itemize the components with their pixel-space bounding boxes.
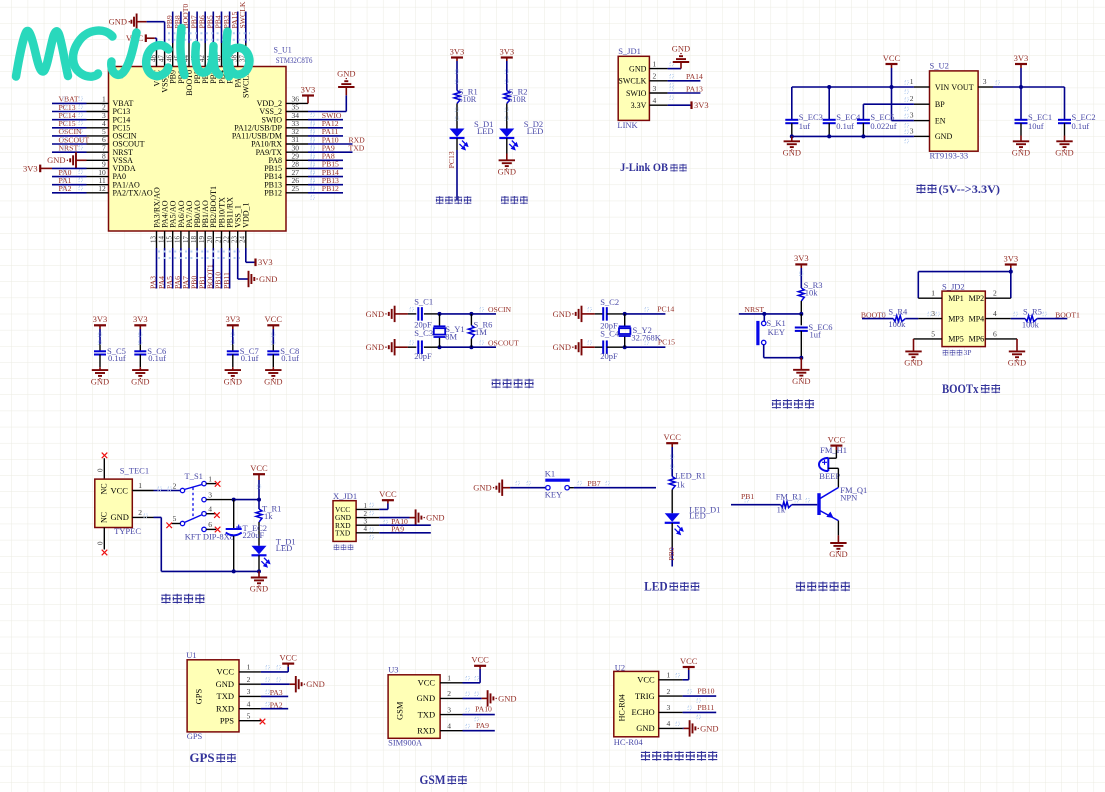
no-connect X at T_S1 pin4	[214, 512, 220, 518]
junction NRST/key	[762, 312, 766, 316]
capacitor S_C8	[267, 351, 279, 354]
power 3V3 bootx	[1005, 263, 1017, 265]
wire S_C7 to gnd	[232, 355, 234, 368]
ground at X_JD1 pin2	[416, 509, 422, 525]
svg-text:1: 1	[667, 671, 671, 680]
svg-text:GSM: GSM	[395, 701, 405, 720]
svg-text:1k: 1k	[264, 511, 273, 521]
svg-text:13: 13	[149, 236, 157, 244]
wire gnd rail	[792, 135, 914, 137]
wire U3 pin2 to gnd	[463, 697, 482, 699]
ground below S_EC1	[1013, 141, 1029, 147]
wire S_C3 to OSCOUT	[424, 346, 440, 348]
svg-text:GND: GND	[1008, 358, 1026, 368]
mcu U1 marker dots	[117, 72, 120, 75]
junction S_Y2 bottom	[623, 345, 627, 349]
mcu pin 27 PB14	[286, 176, 308, 178]
wire S_EC2 bottom	[1064, 123, 1066, 135]
wire EC3 to ground	[791, 136, 793, 141]
capacitor S_EC5	[857, 120, 870, 123]
power VCC above regulator	[886, 63, 898, 65]
svg-text:3P: 3P	[964, 348, 972, 357]
svg-text:GND: GND	[700, 723, 718, 733]
svg-text:T_S1: T_S1	[185, 471, 203, 481]
wire U3 pin3 PA10	[463, 714, 495, 716]
power VCC at U2	[683, 666, 695, 668]
wire PB1 to FM_R1	[731, 504, 781, 506]
wire 3V3 to S_C5	[99, 325, 101, 329]
svg-text:2: 2	[993, 289, 997, 298]
caption 蜂鸣器电路	[796, 582, 805, 592]
svg-text:GND: GND	[250, 584, 268, 594]
svg-text:1k: 1k	[676, 480, 685, 490]
mcu pin 41 PB5 (top)	[212, 43, 214, 67]
svg-text:0.1uf: 0.1uf	[836, 121, 854, 131]
power 3V3 at VOUT	[1015, 63, 1027, 65]
svg-text:VDD_1: VDD_1	[242, 202, 251, 227]
svg-text:3: 3	[983, 77, 987, 86]
wire S_C2 to PC14	[607, 313, 625, 315]
svg-text:GND: GND	[672, 43, 690, 53]
mcu pin 48 VCC (top)	[156, 43, 158, 67]
ground top-left of mcu	[131, 14, 136, 30]
wire 3V3 to S_C6	[139, 325, 141, 329]
power 3V3 at mcu pin24	[254, 259, 256, 267]
junction EC6 gnd	[799, 356, 803, 360]
capacitor T_EC2	[226, 529, 242, 535]
svg-text:18: 18	[190, 236, 198, 244]
resistor LED_R1	[669, 477, 675, 490]
svg-text:S_C1: S_C1	[414, 296, 433, 306]
S_JD2 pin2 stub	[985, 297, 1011, 299]
svg-text:6: 6	[993, 329, 997, 338]
wire U2 pin3 PB11	[683, 711, 717, 713]
wire EC4 top	[828, 87, 830, 119]
svg-text:3V3: 3V3	[258, 257, 273, 267]
svg-text:PA10: PA10	[475, 705, 492, 714]
wire U1 pin2 to gnd	[261, 683, 290, 685]
svg-text:3V3: 3V3	[225, 314, 240, 324]
connector X_JD1 body	[333, 501, 356, 542]
svg-text:GND: GND	[366, 309, 384, 319]
svg-text:PA14: PA14	[686, 72, 703, 81]
resistor S_R1	[454, 91, 460, 104]
capacitor S_C4	[603, 340, 607, 354]
svg-text:1: 1	[910, 77, 914, 86]
svg-text:VCC: VCC	[680, 656, 698, 666]
power 3V3 at mcu pin36	[302, 94, 314, 96]
svg-text:3V3: 3V3	[694, 100, 709, 110]
capacitor S_C1	[418, 307, 422, 321]
svg-text:GND: GND	[1055, 148, 1073, 158]
wire S_C1 to OSCIN	[424, 313, 440, 315]
wire VOUT rail	[993, 86, 1065, 88]
capacitor S_C3	[418, 340, 422, 354]
module U2 body	[614, 671, 659, 736]
svg-text:HC-R04: HC-R04	[618, 694, 627, 721]
svg-text:KEY: KEY	[545, 490, 562, 500]
wire S_EC4 bottom	[828, 123, 830, 136]
T_S1 pin4 stub	[206, 513, 216, 515]
svg-text:GND: GND	[259, 274, 277, 284]
svg-text:KEY: KEY	[768, 327, 785, 337]
svg-text:GND: GND	[629, 64, 647, 73]
mcu pin 16 PA6/AO (bottom)	[180, 231, 182, 248]
svg-text:3V3: 3V3	[1014, 53, 1029, 63]
svg-text:(5V-->3.3V): (5V-->3.3V)	[939, 184, 1001, 196]
mcu pin 26 PB13	[286, 184, 308, 186]
capacitor S_C6	[134, 351, 146, 354]
S_JD2 pin5 stub	[914, 338, 943, 340]
wire 3V3 bootx stem	[1010, 265, 1012, 269]
svg-text:6: 6	[208, 520, 212, 529]
wire VCC to S_C8	[272, 325, 274, 329]
svg-text:220uF: 220uF	[243, 530, 265, 540]
svg-text:S_C2: S_C2	[600, 297, 619, 307]
mcu pin 11 PA1/AO	[87, 184, 109, 186]
svg-text:PB12: PB12	[264, 188, 282, 197]
svg-text:0.1uf: 0.1uf	[1072, 121, 1090, 131]
power VCC at U3	[474, 665, 486, 667]
svg-text:4: 4	[447, 722, 451, 731]
svg-text:2: 2	[138, 508, 142, 517]
svg-text:3V3: 3V3	[1003, 253, 1018, 263]
svg-text:1M: 1M	[475, 327, 487, 337]
svg-text:17: 17	[182, 236, 190, 244]
svg-text:GPS: GPS	[194, 689, 204, 705]
mcu pin 13 PA3/RX/AO (bottom)	[156, 231, 158, 248]
ground at mcu pin8	[70, 152, 76, 168]
svg-text:GND: GND	[224, 376, 242, 386]
svg-text:1: 1	[138, 481, 142, 490]
svg-text:1: 1	[208, 475, 212, 484]
svg-text:LINK: LINK	[617, 120, 638, 130]
no-connect X top S_TEC1	[102, 453, 108, 459]
mcu pin 43 PB7 (top)	[196, 43, 198, 67]
svg-text:S_U2: S_U2	[930, 60, 949, 70]
svg-text:PA2/TX/AO: PA2/TX/AO	[113, 188, 153, 197]
key S_K1	[756, 321, 759, 345]
svg-text:2: 2	[247, 675, 251, 684]
connector S_TEC1 body	[95, 479, 133, 527]
mcu pin 30 PA9/TX	[286, 151, 308, 153]
ground below S_C5	[92, 370, 108, 376]
led S_D2	[499, 129, 514, 138]
svg-text:HC-R04: HC-R04	[614, 737, 644, 747]
mcu pin36 3V3 stem	[307, 96, 309, 104]
svg-text:10k: 10k	[805, 287, 819, 297]
wire 3V3 to S_C7	[232, 325, 234, 329]
junction S_R6 bottom	[469, 345, 473, 349]
mcu pin23 gnd wire	[237, 248, 239, 279]
S_TEC1 pin2 stub	[132, 516, 153, 518]
wire S_R2 to S_D2	[506, 104, 508, 129]
wire S_C8 to gnd	[272, 355, 274, 368]
switch T_S1 link dashed	[192, 488, 194, 520]
svg-text:FM_H1: FM_H1	[820, 445, 847, 455]
svg-text:14: 14	[157, 236, 165, 244]
mcu pin 35 VSS_2	[286, 111, 308, 113]
svg-text:LED: LED	[644, 580, 668, 594]
wire emitter to gnd	[837, 521, 839, 536]
svg-text:GND: GND	[337, 68, 355, 78]
mcu pin 6 OSCOUT	[87, 143, 109, 145]
S_JD2 pin6 stub	[985, 338, 1017, 340]
connector S_JD2 body	[942, 291, 985, 347]
junction VOUT 3V3	[1019, 85, 1023, 89]
svg-text:S_R5: S_R5	[1023, 306, 1042, 316]
svg-text:3.3V: 3.3V	[631, 101, 647, 110]
mcu pin 18 PB0/AO (bottom)	[196, 231, 198, 248]
wire X_JD1 pin1 to VCC	[379, 508, 388, 510]
wire S_C4 to PC15	[607, 346, 625, 348]
wire S_EC5 bottom	[862, 123, 864, 136]
S_JD2 pin4 stub	[985, 318, 1011, 320]
svg-text:NRST: NRST	[59, 144, 79, 153]
mcu pin 5 OSCIN	[87, 135, 109, 137]
wire U3 pin4 PA9	[463, 730, 495, 732]
svg-text:2: 2	[667, 687, 671, 696]
wire S_R3 to NRST node	[800, 301, 802, 314]
svg-text:X_JD1: X_JD1	[333, 491, 357, 501]
mcu pin35 gnd wire	[308, 111, 346, 113]
wire BOOT0 to S_R4	[862, 318, 893, 320]
resistor S_R6	[468, 326, 474, 339]
no-connect X at T_S1 pin1	[215, 481, 221, 487]
mcu pin9 VDDA power wire	[40, 167, 52, 169]
svg-text:PB11: PB11	[697, 703, 714, 712]
svg-text:PA9: PA9	[476, 721, 489, 730]
svg-text:510R: 510R	[459, 95, 477, 104]
svg-text:3: 3	[910, 126, 914, 135]
wire 3V3 to S_R2	[506, 58, 508, 62]
svg-text:3: 3	[667, 703, 671, 712]
switch T_S1 pole 3	[202, 497, 206, 501]
wire R3 to EC6	[800, 314, 802, 325]
module U1 body	[187, 660, 239, 732]
S_TEC1 pin1 stub	[132, 490, 153, 492]
wire S_EC1 bottom	[1020, 123, 1022, 135]
dotted marks top band	[168, 32, 250, 34]
svg-text:VCC: VCC	[265, 314, 283, 324]
mcu pin 23 VSS_1 (bottom)	[237, 231, 239, 248]
svg-text:MP6: MP6	[969, 335, 985, 344]
ground above J-Link	[673, 56, 689, 62]
caption 复位电路	[772, 399, 781, 408]
svg-text:VCC: VCC	[279, 652, 297, 662]
svg-text:0: 0	[97, 541, 105, 545]
svg-text:TXD: TXD	[335, 528, 351, 537]
svg-text:2: 2	[447, 689, 451, 698]
svg-text:20: 20	[206, 236, 214, 244]
svg-text:TXD: TXD	[217, 691, 234, 701]
junction NRST/R3	[799, 312, 803, 316]
mcu pin 4 PC15	[87, 127, 109, 129]
svg-text:3V3: 3V3	[301, 84, 316, 94]
svg-text:GPS: GPS	[190, 751, 215, 765]
junction S_Y1 top	[438, 312, 442, 316]
mcu pin 17 PA7/AO (bottom)	[188, 231, 190, 248]
svg-text:GND: GND	[498, 693, 516, 703]
svg-text:0.1uf: 0.1uf	[281, 353, 299, 363]
mcu pin 2 PC13	[87, 111, 109, 113]
capacitor S_EC1	[1015, 120, 1028, 123]
svg-text:S_TEC1: S_TEC1	[120, 465, 149, 475]
svg-text:TYPEC: TYPEC	[114, 526, 141, 536]
resistor T_R1	[256, 509, 262, 522]
svg-text:GND: GND	[47, 155, 65, 165]
wire cap T_EC2 bottom lead	[233, 536, 235, 571]
wire buzzer to collector	[828, 467, 838, 469]
svg-text:GND: GND	[109, 17, 127, 27]
led S_D1	[450, 129, 465, 138]
mcu pin 36 VDD_2	[286, 102, 308, 104]
ground S_JD2 pin6	[1009, 351, 1025, 357]
svg-text:24: 24	[239, 236, 247, 244]
ground at U3 pin2	[488, 690, 494, 706]
wire U2 pin2 PB10	[683, 695, 717, 697]
mcu pin 47 VSS_3 (top)	[164, 43, 166, 67]
svg-text:VCC: VCC	[217, 667, 235, 677]
wire gnd to S_C1	[395, 313, 408, 315]
svg-text:BEEP: BEEP	[819, 471, 840, 481]
svg-text:EN: EN	[935, 116, 946, 125]
wire S_JD1 pin4 3V3	[668, 104, 691, 106]
svg-text:GND: GND	[473, 483, 491, 493]
svg-text:100k: 100k	[888, 319, 906, 329]
svg-text:RXD: RXD	[417, 726, 435, 736]
wire S_EC3 bottom	[791, 123, 793, 136]
svg-text:LED: LED	[527, 126, 544, 136]
crystal S_Y2	[619, 326, 631, 336]
ground below S_C8	[265, 370, 281, 376]
svg-text:5: 5	[247, 712, 251, 721]
caption 电源(5V->3.3V)	[916, 184, 925, 193]
wire LED_D1 to PB0	[671, 523, 673, 547]
svg-text:2: 2	[653, 72, 657, 81]
svg-text:16: 16	[174, 236, 182, 244]
svg-text:J-Link OB: J-Link OB	[620, 160, 668, 174]
power VCC above S_C8	[267, 324, 279, 326]
svg-text:20pF: 20pF	[600, 351, 618, 361]
power VCC typec	[253, 473, 265, 475]
power 3V3 for S_D1	[451, 56, 463, 58]
svg-text:VCC: VCC	[471, 655, 489, 665]
wire U1 pin3 PA3	[261, 695, 288, 697]
T_S1 pin6 stub	[206, 528, 216, 530]
ground at mcu pin35	[338, 81, 354, 87]
svg-text:32.768K: 32.768K	[631, 333, 661, 343]
mcu pin 14 PA4/AO (bottom)	[164, 231, 166, 248]
svg-text:100k: 100k	[1022, 320, 1040, 330]
wire S_EC2 top	[1064, 87, 1066, 119]
resistor S_R3	[798, 288, 804, 301]
svg-text:47: 47	[157, 55, 165, 63]
svg-text:GND: GND	[498, 167, 516, 177]
junction VCC/VIN	[890, 85, 894, 89]
wire U2 pin4 to gnd	[683, 727, 684, 729]
wire 3V3 to S_R1	[456, 58, 458, 62]
svg-text:PB10: PB10	[697, 687, 714, 696]
wire S_D1 to PC13	[456, 138, 458, 150]
wire cap T_EC2 top lead	[233, 500, 235, 529]
svg-text:BOOT1: BOOT1	[1055, 310, 1080, 319]
svg-text:MP4: MP4	[969, 314, 985, 323]
mcu pin 25 PB12	[286, 192, 308, 194]
T_S1 pin5 stub	[172, 523, 181, 525]
svg-text:OSCOUT: OSCOUT	[488, 338, 519, 347]
power VCC at U1	[282, 662, 294, 664]
mcu pin 38 PA15 (top)	[237, 43, 239, 67]
svg-text:GND: GND	[306, 679, 324, 689]
wire X_JD1 pin4 PA9	[379, 532, 431, 534]
wire NRST	[739, 313, 802, 315]
wire pin4 to S_R5	[1011, 318, 1025, 320]
wire U2 pin1 to VCC	[683, 679, 689, 681]
mcu pin 31 PA10/RX	[286, 143, 308, 145]
svg-text:GND: GND	[792, 376, 810, 386]
svg-text:GND: GND	[264, 376, 282, 386]
caption 可编程灯	[436, 196, 444, 204]
ground left of S_C3	[389, 339, 395, 355]
wire 3V3 stem	[1020, 64, 1022, 68]
svg-text:MP3: MP3	[948, 314, 964, 323]
svg-text:GSM: GSM	[420, 773, 446, 787]
svg-text:0.1uf: 0.1uf	[241, 353, 259, 363]
svg-text:25: 25	[292, 184, 300, 193]
mcu pin 29 PA8	[286, 159, 308, 161]
wire S_C5 to gnd	[99, 355, 101, 368]
switch T_S1 pole 5	[180, 521, 184, 525]
wire to ground typec	[258, 571, 260, 577]
wire BP rail	[863, 103, 914, 105]
svg-text:GND: GND	[216, 679, 234, 689]
mcu pin 15 PA5/AO (bottom)	[172, 231, 174, 248]
wire S_R1 to S_D1	[456, 104, 458, 129]
mcu pin 1 VBAT	[87, 102, 109, 104]
svg-text:SWCLK: SWCLK	[618, 77, 646, 86]
svg-text:S_U1: S_U1	[274, 46, 292, 55]
mcu pin 34 SWIO	[286, 119, 308, 121]
ground at U1 pin2	[296, 676, 302, 692]
mcu pin 28 PB15	[286, 167, 308, 169]
svg-text:2: 2	[910, 94, 914, 103]
svg-text:VCC: VCC	[883, 53, 901, 63]
svg-text:4: 4	[993, 309, 997, 318]
svg-text:S_C3: S_C3	[414, 328, 433, 338]
mcu pin 32 PA11/USB/DM	[286, 135, 308, 137]
svg-text:1: 1	[247, 663, 251, 672]
svg-text:PC13: PC13	[447, 151, 456, 168]
svg-text:S_R4: S_R4	[888, 306, 908, 316]
mcu pin 39 PB3 (top)	[229, 43, 231, 67]
junction S_EC4 gnd	[827, 134, 831, 138]
svg-text:0.022uf: 0.022uf	[870, 121, 896, 131]
wire T_R1 to T_D1	[258, 522, 260, 546]
ground below S_D2	[499, 160, 515, 166]
resistor S_R4	[893, 316, 905, 322]
svg-text:VCC: VCC	[379, 489, 397, 499]
svg-text:MP1: MP1	[948, 294, 964, 303]
junction S_Y2 top	[623, 312, 627, 316]
ground at U2 pin4	[690, 720, 696, 736]
wire VCC to T_R1	[258, 474, 260, 480]
svg-text:3V3: 3V3	[133, 314, 148, 324]
svg-text:VCC: VCC	[828, 434, 846, 444]
mcu U1 body	[109, 67, 287, 232]
wire pin2 gnd return	[154, 516, 162, 518]
svg-text:PA13: PA13	[686, 84, 703, 93]
